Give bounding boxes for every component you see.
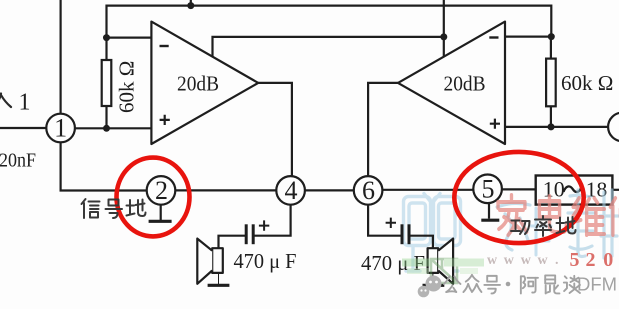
watermark blue book logo	[404, 194, 461, 272]
junction dot center feedback	[440, 33, 447, 40]
wire C2 to speaker LS2	[410, 236, 433, 249]
watermark blue glyph strokes	[531, 208, 551, 255]
wire node6 down to capacitor C2	[368, 205, 401, 236]
U1 plus label	[160, 115, 170, 125]
op-amp U2	[398, 22, 505, 144]
input label: partial CJK 'ru' at left edge	[0, 94, 11, 108]
svg-text:6: 6	[362, 176, 375, 205]
watermark blue cursive glyph strokes (over schematic)	[497, 190, 618, 258]
wire center vertical to top edge	[443, 0, 445, 57]
watermark red text jia-dian-wei-xiu	[498, 195, 619, 236]
gray text gong-zhong-hao dot a-kun-tan DFM	[444, 275, 580, 294]
capacitor C2 polarity +	[386, 218, 396, 228]
wire node4 down to capacitor C1	[255, 205, 291, 236]
wire U1 output to node 4	[258, 83, 292, 176]
svg-text:1: 1	[19, 90, 31, 116]
wire U2 + input to right node	[505, 126, 608, 128]
wire node6 up to U2 apex	[368, 83, 398, 176]
svg-text:20nF: 20nF	[0, 149, 36, 171]
watermark www letters	[487, 253, 559, 268]
svg-text:2: 2	[155, 176, 168, 205]
wire box to right edge	[612, 189, 619, 191]
junction dot top rail supply	[187, 2, 194, 9]
junction dot R2 bottom	[548, 123, 555, 130]
wire supply stub	[190, 0, 192, 6]
svg-text:w: w	[504, 253, 515, 268]
capacitor C1 plates	[246, 224, 253, 244]
label signal-ground CJK	[82, 199, 146, 218]
ground LS1	[208, 273, 230, 285]
node 4	[276, 176, 305, 205]
node 1	[46, 114, 75, 143]
wire node2 to node4	[175, 189, 276, 191]
ground LS2	[423, 273, 445, 285]
junction dot R1 top	[103, 34, 110, 41]
wire input left	[0, 127, 46, 129]
ground signal (below node 2)	[149, 205, 172, 222]
U1 minus label	[160, 45, 169, 47]
wire C1 to speaker LS1	[219, 236, 246, 249]
junction dot R1 bottom	[103, 125, 110, 132]
wire node6 to node5	[382, 189, 473, 191]
svg-text:0: 0	[603, 249, 613, 271]
ground power (below node 5)	[481, 203, 499, 220]
svg-text:DFM: DFM	[577, 274, 617, 295]
capacitor C2 plates	[402, 224, 409, 244]
op-amp U1	[151, 22, 258, 144]
wire top rail	[107, 6, 552, 38]
svg-text:1: 1	[54, 114, 67, 143]
svg-text:5: 5	[570, 249, 580, 271]
svg-text:w: w	[521, 253, 532, 268]
wire node4 to node6	[305, 189, 354, 191]
svg-text:20dB: 20dB	[177, 72, 219, 96]
U2 minus label	[489, 36, 498, 38]
resistor R1 leads	[105, 38, 107, 60]
watermark 520 red digits	[570, 249, 614, 271]
box 10-18	[536, 176, 613, 205]
svg-text:20dB: 20dB	[444, 72, 486, 96]
node 5	[473, 175, 502, 204]
resistor R2 leads	[550, 37, 552, 59]
node 2	[147, 176, 176, 205]
node 6	[354, 176, 383, 205]
wire node1 to + input of U1	[75, 127, 151, 129]
wire node5 to box	[502, 188, 536, 190]
gray chat icon	[418, 276, 442, 298]
svg-text:10: 10	[543, 177, 565, 202]
svg-text:4: 4	[285, 176, 298, 205]
svg-text:5: 5	[482, 174, 495, 203]
node 7 right edge partial	[608, 113, 619, 142]
watermark green marks	[402, 259, 484, 284]
junction dot R2 top	[548, 33, 555, 40]
svg-text:2: 2	[586, 249, 596, 271]
resistor R2 body	[546, 59, 556, 107]
wire U2 - input	[505, 35, 551, 37]
speaker LS1	[197, 239, 223, 284]
red ellipse around node 2 signal ground	[117, 158, 190, 237]
U2 plus label	[490, 119, 500, 129]
label power-ground CJK	[511, 216, 576, 236]
svg-text:60k Ω: 60k Ω	[561, 71, 613, 95]
capacitor C1 polarity +	[259, 220, 269, 230]
svg-text:w: w	[487, 253, 498, 268]
svg-text:60k Ω: 60k Ω	[115, 61, 139, 113]
svg-text:.: .	[555, 253, 559, 268]
svg-text:w: w	[538, 253, 549, 268]
resistor R1 body	[102, 60, 112, 106]
wire junction to - input of U1	[107, 36, 152, 38]
svg-text:470 μ F: 470 μ F	[234, 249, 297, 273]
wire node1 up to top edge	[59, 0, 61, 114]
red ellipse around node 5 power ground	[454, 152, 583, 243]
wire feedback U1 tap	[213, 37, 444, 58]
speaker LS2	[428, 239, 454, 284]
wire node1 down and right to node 2	[61, 142, 147, 190]
